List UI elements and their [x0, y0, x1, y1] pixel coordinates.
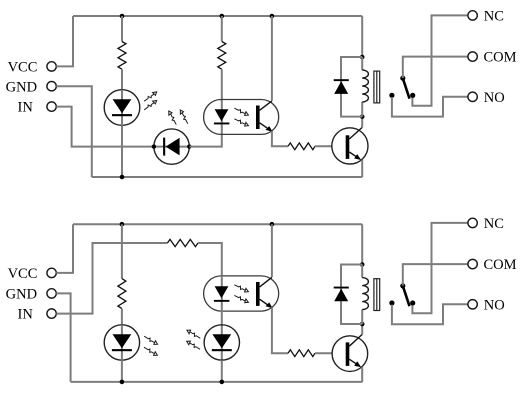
terminal COM (bottom circuit) [468, 259, 477, 268]
wire: LED1 cathode to ground rail [121, 125, 123, 177]
node: LED1 at ground rail [120, 175, 125, 180]
U1 light arrows [234, 106, 250, 127]
LED2 (bottom) light arrows [186, 329, 202, 352]
node: LED2 at ground rail (bottom) [220, 380, 225, 385]
U1 internal LED (bottom) [214, 276, 230, 361]
svg-text:IN: IN [17, 100, 33, 116]
svg-text:NO: NO [484, 90, 505, 106]
wire: COM to blade [403, 57, 468, 78]
relay coil K1 (bottom) [362, 278, 368, 310]
wire: GND lead down to ground rail (bottom) [56, 293, 70, 382]
relay contact blade (bottom) [403, 286, 410, 306]
wire: VCC lead (bottom) [56, 224, 73, 273]
terminal COM (top circuit) [468, 52, 477, 61]
LED LED1 indicator (bottom) [104, 325, 139, 360]
terminal NO (bottom circuit) [468, 300, 477, 309]
svg-text:GND: GND [6, 79, 37, 95]
optocoupler U1 body (bottom) [204, 276, 279, 311]
svg-text:COM: COM [484, 257, 517, 273]
diode D2 flyback [334, 79, 349, 94]
node: D1 right [187, 144, 191, 148]
terminal NO (top circuit) [468, 92, 477, 101]
relay K1 core [374, 71, 380, 103]
svg-text:VCC: VCC [8, 266, 38, 282]
wire: flyback diode branch (bottom) [341, 265, 362, 325]
wire: R1 to LED1 [121, 69, 123, 90]
terminal IN (top circuit) [47, 102, 56, 111]
wire: R2 to optocoupler LED anode [221, 69, 223, 134]
node: rail junction at U1 collector [270, 14, 275, 19]
relay contact: NC contact node (bottom) [410, 300, 415, 305]
relay K1 core (bottom) [374, 279, 380, 311]
LED1 light arrows [143, 90, 158, 111]
wire: top VCC rail (bottom circuit) [73, 223, 362, 225]
transistor Q1 (bottom) [332, 334, 368, 371]
wire: LED2 cathode to ground rail (bottom) [221, 360, 223, 382]
svg-text:COM: COM [484, 50, 517, 66]
terminal GND (bottom circuit) [47, 289, 56, 298]
svg-text:VCC: VCC [8, 60, 38, 76]
terminal NC (bottom circuit) [468, 218, 477, 227]
wire: COM to blade (bottom) [403, 264, 468, 286]
wire: VCC lead [56, 16, 73, 66]
wire: U1 emitter to R3 (bottom) [272, 307, 288, 353]
wire: coil top stub [361, 57, 363, 70]
relay contact: NC contact node [410, 93, 415, 98]
transistor Q1 [332, 127, 368, 164]
optocoupler U1 body [204, 100, 279, 135]
terminal NC (top circuit) [468, 11, 477, 20]
relay contact: NO fixed contact node [389, 93, 394, 98]
wire: coil bottom stub (bottom) [361, 310, 363, 324]
resistor R3 base resistor (bottom) [288, 350, 315, 357]
wire: R2 to optocoupler LED anode (bottom) [198, 243, 222, 276]
wire: GND lead down to ground rail [56, 86, 92, 177]
wire: U1 collector to rail (bottom) [271, 224, 273, 277]
wire: LED1 cathode to ground rail (bottom) [121, 360, 123, 382]
wire: R3 to Q1 base [315, 145, 332, 147]
wire: NO contact to NO terminal (bottom) [392, 304, 468, 324]
node: rail junction at U1 collector (bottom) [270, 222, 275, 227]
terminal GND (top circuit) [47, 82, 56, 91]
wire: Q1 emitter down to ground rail (bottom) [361, 367, 363, 382]
wire: R1 top stub [121, 16, 123, 42]
terminal VCC (top circuit) [47, 62, 56, 71]
wire: R1 to LED1 (bottom) [121, 309, 123, 325]
svg-text:IN: IN [17, 307, 33, 323]
wire: R2 top stub [221, 16, 223, 42]
node: D1 left [152, 144, 156, 148]
wire: NC terminal to NC contact (bottom) [412, 223, 468, 313]
LED LED1 indicator [104, 90, 140, 126]
resistor R1 [118, 42, 126, 70]
resistor R2 [218, 42, 226, 70]
D1 light arrows [167, 109, 189, 126]
wire: bottom ground rail (bottom circuit) [71, 381, 363, 383]
wire: coil bottom stub [361, 102, 363, 117]
LED1 (bottom) light arrows [143, 334, 158, 357]
wire: bottom ground rail [92, 176, 363, 178]
svg-text:NC: NC [484, 216, 504, 232]
relay contact: NO fixed contact node (bottom) [389, 300, 394, 305]
wire: Q1 collector up to coil node [361, 117, 363, 127]
resistor R2 input series (bottom) [167, 239, 198, 246]
node: LED1 at ground rail (bottom) [120, 380, 125, 385]
resistor R1 (bottom) [118, 279, 126, 309]
wire: R3 to Q1 base (bottom) [315, 352, 332, 354]
diode D2 flyback (bottom) [334, 287, 349, 302]
relay coil K1 [362, 70, 368, 102]
wire: flyback diode branch [341, 57, 362, 117]
terminal IN (bottom circuit) [47, 309, 56, 318]
wire: NO contact to NO terminal [392, 97, 468, 117]
wire: rail right corner down to coil (bottom circuit) [361, 224, 363, 264]
relay contact: blade pivot node (bottom) [400, 283, 405, 288]
terminal VCC (bottom circuit) [47, 268, 56, 277]
U1 internal LED [214, 109, 230, 124]
node: rail junction at R1 [120, 14, 125, 19]
svg-text:GND: GND [6, 287, 37, 303]
wire: NC terminal to NC contact [412, 15, 468, 105]
wire: U1 emitter to R3 [272, 131, 288, 146]
LED LED2 indicator (bottom) [204, 325, 239, 360]
wire: D1 to optocoupler LED [189, 134, 221, 146]
U1 light arrows (bottom) [234, 283, 250, 304]
node: rail junction at R2 [220, 14, 225, 19]
wire: top VCC rail [73, 15, 362, 17]
U1 phototransistor Q (bottom) [256, 277, 273, 308]
wire: U1 collector to rail [271, 16, 273, 101]
wire: Q1 emitter down to ground rail [361, 160, 363, 177]
wire: R1 top stub (bottom) [121, 224, 123, 278]
wire: IN lead up to input resistor [56, 243, 167, 314]
wire: rail right corner down to coil [361, 16, 363, 57]
wire: Q1 collector up to coil node (bottom) [361, 324, 363, 334]
U1 phototransistor Q [256, 101, 273, 132]
wire: IN lead to diode D1 [56, 107, 154, 147]
svg-text:NC: NC [484, 9, 504, 25]
LED D1 series input diode [154, 129, 190, 164]
wire: coil top stub (bottom) [361, 265, 363, 278]
resistor R3 base resistor [288, 143, 315, 150]
relay contact: blade pivot node [400, 76, 405, 81]
svg-text:NO: NO [484, 297, 505, 313]
node: coil bottom junction [360, 114, 365, 119]
relay contact blade [403, 78, 410, 98]
node: coil top junction [360, 55, 365, 60]
node: rail junction at R1 (bottom) [120, 222, 125, 227]
node: coil top junction (bottom) [360, 262, 365, 267]
node: coil bottom junction (bottom) [360, 322, 365, 327]
